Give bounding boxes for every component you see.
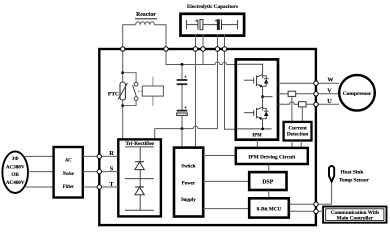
right edge terminal nodes W V U (314, 81, 318, 214)
svg-text:OR: OR (11, 172, 19, 178)
relay contact S1 (134, 82, 138, 86)
capacitor C2 (polarized) (217, 20, 219, 30)
wires filter to main box (83, 156, 100, 187)
capacitor C3 (177, 79, 188, 81)
wire communication to main box (316, 210, 323, 212)
capacitor C1 (polarized) (197, 20, 199, 30)
svg-text:AC: AC (64, 158, 72, 163)
svg-text:R: R (109, 150, 114, 157)
wire MCU to communication (289, 210, 316, 212)
wire SPS to DSP (203, 180, 249, 182)
rectifier top bar (125, 146, 154, 148)
node branch bottom (121, 104, 124, 107)
capacitor C4 (177, 110, 188, 112)
wires current detection to driving circuit (291, 141, 293, 148)
wire xB bus to DC+ rail (202, 49, 204, 65)
DSP box (249, 172, 286, 190)
wire IPM to driving circuit (256, 140, 258, 148)
relay coil K1 (152, 77, 154, 106)
IPM V inner wire (263, 96, 273, 98)
svg-text:Compressor: Compressor (343, 91, 372, 97)
rectifier bottom bar (125, 209, 154, 211)
svg-text:DSP: DSP (262, 179, 273, 185)
svg-text:IPM Driving Circuit: IPM Driving Circuit (248, 155, 295, 161)
U phase wire with hop (278, 102, 339, 104)
svg-text:AC380V: AC380V (6, 164, 25, 170)
svg-text:Reactor: Reactor (136, 12, 156, 18)
wires source to filter (24, 156, 54, 187)
PTC resistor (120, 82, 125, 100)
bus junction nodes (top) (121, 47, 227, 51)
left edge terminal nodes R S T (97, 154, 101, 189)
DC-link capacitor string (181, 65, 183, 148)
node branch top (121, 71, 124, 74)
shunt resistor U (299, 102, 307, 107)
shunt resistor V (288, 91, 296, 96)
wire DSP to MCU (268, 190, 270, 198)
svg-text:AC460V: AC460V (6, 180, 25, 186)
main control board box (99, 49, 316, 225)
relay contact branch wire (123, 73, 136, 106)
diode D2 (135, 186, 144, 188)
wire driving circuit to DSP (268, 164, 270, 172)
svg-text:Noise: Noise (61, 172, 74, 177)
IPM box (236, 59, 278, 139)
relay link (dashed) (138, 90, 142, 92)
IPM top rail (237, 64, 262, 74)
wire SPS to MCU (203, 208, 249, 210)
svg-text:S: S (110, 165, 114, 172)
rectifier + wire with PTC branch (122, 49, 124, 139)
svg-text:U: U (327, 98, 332, 105)
svg-text:+: + (184, 76, 187, 81)
svg-text:+: + (215, 20, 218, 25)
node IPM bottom (261, 127, 264, 130)
IGBT Q1 (244, 75, 266, 97)
svg-text:Tri-Rectifier: Tri-Rectifier (125, 141, 155, 147)
three-phase source (2, 151, 28, 193)
V phase wire (278, 93, 288, 95)
svg-text:IPM: IPM (252, 134, 262, 139)
wire V shunt to current detection (291, 96, 293, 122)
wires R S T to rectifier (100, 156, 119, 187)
wire xD DC- into IPM (225, 49, 236, 129)
wire U shunt to current detection (301, 107, 303, 122)
svg-text:Power: Power (182, 182, 196, 187)
diode D1 (135, 161, 144, 163)
W phase wire (278, 82, 339, 84)
svg-text:Detection: Detection (287, 132, 309, 138)
node: cap string bottom tap (181, 127, 184, 130)
svg-text:Filter: Filter (62, 185, 74, 190)
compressor M1 (339, 75, 375, 111)
IGBT Q2 (244, 97, 266, 129)
svg-text:Heat Sink: Heat Sink (341, 170, 364, 176)
wire xA DC+ to SPS (195, 49, 197, 148)
reactor L1 (123, 22, 166, 49)
wires from capacitor box to bus (196, 35, 225, 50)
wire xC DC- to rectifier (155, 49, 218, 139)
svg-text:Switch: Switch (181, 165, 195, 170)
svg-text:+: + (184, 106, 187, 111)
8-bit MCU box (249, 198, 289, 217)
switch power supply box (174, 148, 203, 217)
wire SPS to IPM driving circuit (203, 155, 236, 157)
rectifier mid bar (125, 178, 154, 180)
IPM bottom rail (237, 128, 272, 130)
svg-text:W: W (327, 77, 334, 84)
svg-text:8-Bit MCU: 8-Bit MCU (257, 206, 282, 212)
svg-text:Current: Current (288, 125, 307, 131)
svg-text:+: + (195, 20, 198, 25)
rectifier center wire (139, 147, 141, 211)
communication with main controller box (323, 207, 386, 223)
node: cap string top tap (181, 63, 184, 66)
svg-text:T: T (109, 181, 114, 188)
electrolytic inner wire (187, 20, 238, 29)
svg-text:Supply: Supply (181, 198, 196, 203)
heat sink temp sensor (331, 182, 333, 204)
DC+ horizontal wire with hops (166, 49, 236, 65)
Tri-Rectifier box (118, 139, 161, 216)
svg-text:Temp Sensor: Temp Sensor (339, 178, 370, 184)
IPM driving circuit box (236, 148, 308, 164)
svg-text:Electrolytic Capacitors: Electrolytic Capacitors (187, 4, 238, 10)
svg-text:3Φ: 3Φ (12, 156, 20, 162)
svg-text:V: V (327, 87, 332, 94)
AC noise filter box (54, 147, 83, 198)
node IPM midpoint (261, 95, 264, 98)
wire MCU to heat sink sensor (289, 203, 316, 205)
current detection box (284, 122, 312, 141)
svg-text:PTC: PTC (108, 91, 119, 97)
svg-text:Main Controller: Main Controller (337, 216, 374, 222)
